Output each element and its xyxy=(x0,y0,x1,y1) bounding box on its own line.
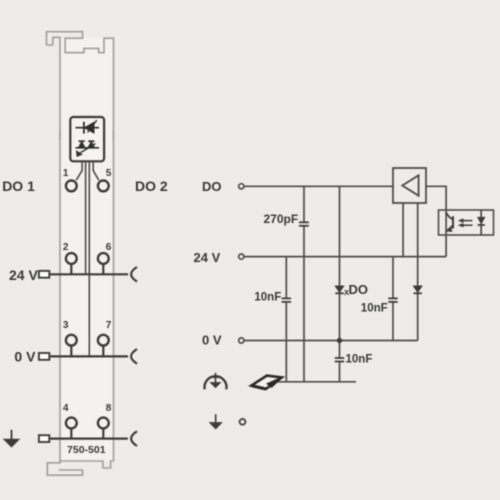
svg-text:270pF: 270pF xyxy=(264,212,299,226)
wire 0V rail xyxy=(244,340,418,342)
24V plug xyxy=(39,271,49,278)
svg-text:6: 6 xyxy=(106,242,112,253)
terminal 8 xyxy=(98,418,109,429)
svg-text:1: 1 xyxy=(63,168,69,179)
optocoupler LED xyxy=(478,210,485,235)
wire 24V rail xyxy=(244,256,446,258)
0V clamp xyxy=(131,349,137,364)
0V plug xyxy=(39,353,49,360)
capacitor 270pF plates xyxy=(299,222,309,226)
svg-text:5: 5 xyxy=(106,168,112,179)
op-amp U1 box xyxy=(393,168,426,203)
capacitor 10nF plates (0V) xyxy=(335,358,344,362)
module 750-501 body xyxy=(60,38,114,461)
svg-text:0 V: 0 V xyxy=(14,349,36,365)
node 24V xyxy=(239,254,244,259)
24V field wire xyxy=(49,273,128,275)
junction dot 0V xyxy=(337,338,342,343)
stem terminal 7 xyxy=(102,346,104,357)
svg-text:2: 2 xyxy=(63,242,69,253)
LED symbol bottom diodes with arrow xyxy=(76,141,100,156)
capacitor 10nF plates (internal) xyxy=(388,298,397,302)
earth bus wire xyxy=(268,381,356,383)
node DO xyxy=(239,184,244,189)
svg-text:3: 3 xyxy=(63,320,69,331)
capacitor 10nF plates (24V) xyxy=(282,298,291,302)
svg-text:750-501: 750-501 xyxy=(67,444,106,456)
terminal 5 xyxy=(98,181,109,192)
op-amp triangle xyxy=(402,175,418,195)
amp pin to 24V xyxy=(402,203,404,257)
svg-text:DO: DO xyxy=(349,282,369,297)
power jumper blade symbol xyxy=(251,376,281,389)
earth arrow schematic xyxy=(210,414,222,429)
stem terminal 4 xyxy=(70,429,72,439)
svg-text:DO 1: DO 1 xyxy=(2,178,35,194)
module top profile xyxy=(47,32,114,140)
0V field wire xyxy=(49,355,128,357)
module earth arrow xyxy=(4,430,19,447)
svg-text:DO 2: DO 2 xyxy=(135,178,168,194)
svg-text:8: 8 xyxy=(106,403,112,414)
svg-text:DO: DO xyxy=(202,179,222,194)
stem terminal 8 xyxy=(102,429,104,439)
stem terminal 6 xyxy=(102,264,104,274)
terminal 1 xyxy=(66,181,77,192)
wire 24V to earth (line B) xyxy=(285,257,287,382)
wire DO suppressor branch (line C) xyxy=(339,186,341,381)
amp output wire xyxy=(426,186,446,256)
svg-text:10nF: 10nF xyxy=(254,292,281,304)
svg-text:4: 4 xyxy=(63,403,69,414)
24V clamp xyxy=(131,267,137,282)
wire DO horizontal xyxy=(244,185,393,187)
amp pin to 0V xyxy=(417,203,419,341)
svg-text:10nF: 10nF xyxy=(346,354,373,366)
terminal 4 xyxy=(66,418,77,429)
svg-text:7: 7 xyxy=(106,320,112,331)
svg-text:24 V: 24 V xyxy=(194,250,221,265)
svg-text:10nF: 10nF xyxy=(361,303,388,315)
module left edge and bottom foot xyxy=(47,130,82,475)
optocoupler U2 box xyxy=(439,210,494,235)
LED indicator box xyxy=(70,117,104,161)
zener diode amp xyxy=(414,286,422,293)
wire 24V to 0V filter (line D) xyxy=(392,257,394,341)
wire DO to earth (line A) xyxy=(303,186,305,381)
node earth xyxy=(240,419,246,425)
node 0V xyxy=(239,338,244,343)
rail contact symbol xyxy=(205,373,227,390)
earth plug xyxy=(39,435,49,442)
terminal 2 xyxy=(66,253,77,264)
stem terminal 3 xyxy=(70,346,72,357)
terminal 7 xyxy=(98,335,109,346)
phototransistor xyxy=(446,213,453,232)
earth clamp xyxy=(131,431,137,446)
LED symbol top diode xyxy=(76,120,100,133)
optocoupler light arrows xyxy=(458,219,472,227)
terminal 6 xyxy=(98,253,109,264)
svg-text:0 V: 0 V xyxy=(202,333,222,348)
svg-text:24 V: 24 V xyxy=(9,267,38,283)
LED box legs (4 wires) xyxy=(76,161,99,356)
earth field wire xyxy=(49,438,128,440)
stem terminal 2 xyxy=(70,264,72,274)
suppressor diode DO xyxy=(335,286,343,293)
terminal 3 xyxy=(66,335,77,346)
module right edge and bottom notch xyxy=(60,130,114,468)
